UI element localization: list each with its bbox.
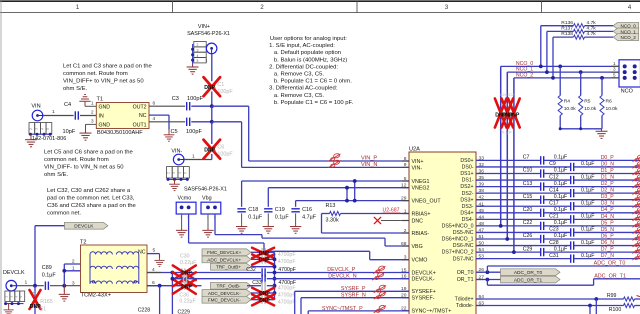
svg-text:C28: C28 bbox=[549, 240, 559, 246]
svg-text:OUT2: OUT2 bbox=[133, 104, 147, 110]
svg-text:ohm S/E.: ohm S/E. bbox=[63, 86, 88, 92]
capacitor C6 100pF DNP bbox=[208, 147, 216, 149]
svg-text:D3_P: D3_P bbox=[601, 194, 615, 200]
wire R136 drop bbox=[540, 26, 542, 67]
svg-text:SYSREF+: SYSREF+ bbox=[412, 289, 436, 295]
net flag ADC_DEVCLK+ bbox=[202, 256, 251, 263]
svg-text:C228: C228 bbox=[138, 307, 151, 313]
svg-text:4700pF: 4700pF bbox=[278, 292, 296, 298]
capacitor C23 0.1uF lane D5_N bbox=[476, 231, 571, 233]
svg-text:C15: C15 bbox=[523, 194, 533, 200]
svg-text:Let C1 and C3 share a pad on t: Let C1 and C3 share a pad on the bbox=[63, 64, 152, 70]
svg-text:C229: C229 bbox=[178, 309, 191, 314]
svg-text:1: 1 bbox=[72, 266, 75, 272]
wire ADC_OR_T0 route bbox=[486, 266, 488, 272]
svg-text:D1_P: D1_P bbox=[601, 168, 615, 174]
svg-text:b. Balun is (400MHz, 3GHz): b. Balun is (400MHz, 3GHz) bbox=[274, 57, 347, 63]
svg-text:C4: C4 bbox=[64, 102, 71, 108]
svg-text:R99: R99 bbox=[607, 293, 617, 299]
capacitor C19 0.1uF bbox=[264, 208, 272, 210]
svg-text:common net. Route from: common net. Route from bbox=[63, 71, 128, 77]
svg-text:b. Populate C1 = C6 = 0 ohm.: b. Populate C1 = C6 = 0 ohm. bbox=[274, 79, 352, 85]
svg-text:pad on the common net. Let C33: pad on the common net. Let C33, bbox=[47, 195, 135, 201]
capacitor C18 0.1uF bbox=[237, 208, 245, 210]
net flag DEVCLK bbox=[64, 222, 108, 229]
DNP mark NCO cap 3 bbox=[508, 99, 520, 128]
diff pair glyph DEVCLK_P bbox=[373, 265, 385, 273]
ground C19 bbox=[263, 224, 274, 233]
svg-text:4700pF: 4700pF bbox=[278, 299, 296, 305]
svg-text:0.1µF: 0.1µF bbox=[275, 214, 290, 220]
diff pair glyph SYNC bbox=[374, 305, 386, 313]
wire VNEG_OUT rail bbox=[296, 200, 409, 202]
svg-text:VIN+: VIN+ bbox=[198, 24, 210, 30]
capacitor C28 0.1uF lane D6_N bbox=[476, 245, 571, 247]
svg-text:DNP: DNP bbox=[259, 291, 270, 297]
wire ADC_OR_T1 route bbox=[486, 280, 488, 286]
svg-text:TRF_OutB-: TRF_OutB- bbox=[217, 284, 241, 289]
svg-text:51: 51 bbox=[40, 307, 46, 313]
svg-text:4700pF: 4700pF bbox=[278, 285, 296, 291]
ground C18 bbox=[236, 224, 247, 233]
capacitor C262 4700pF DNP bbox=[172, 278, 261, 280]
diff pair glyph SYSRF_P bbox=[374, 285, 386, 293]
wire NCO_2 row bbox=[514, 77, 619, 79]
resistor R138 4.7k bbox=[553, 36, 574, 38]
svg-text:RBIAS-: RBIAS- bbox=[412, 231, 430, 237]
svg-text:SYSREF-: SYSREF- bbox=[412, 296, 435, 302]
svg-text:4: 4 bbox=[178, 172, 182, 174]
wire NCO_1 vertical to DS6+ bbox=[506, 72, 508, 239]
svg-text:OR_T0: OR_T0 bbox=[457, 270, 474, 276]
svg-text:2: 2 bbox=[166, 172, 170, 174]
ground DEVCLK input bbox=[63, 286, 65, 292]
svg-text:DS1-: DS1- bbox=[462, 178, 474, 184]
wire VIN+ shield rail bbox=[192, 44, 194, 65]
wire VNEG tie 1 bbox=[354, 181, 356, 201]
svg-text:a. Remove C3, C5.: a. Remove C3, C5. bbox=[274, 93, 324, 99]
wire NCO_0 vertical to DS5+ bbox=[500, 66, 502, 226]
svg-text:C30: C30 bbox=[180, 253, 190, 259]
svg-text:10.0k: 10.0k bbox=[584, 106, 597, 112]
wire DEVCLK sma to C89 bbox=[17, 285, 44, 287]
resistor R136 4.7k bbox=[541, 25, 574, 27]
svg-text:common net. Route from: common net. Route from bbox=[44, 157, 109, 163]
svg-text:GND: GND bbox=[99, 104, 111, 110]
resistor R4 10.0k bbox=[558, 65, 562, 69]
svg-text:4.7k: 4.7k bbox=[587, 31, 597, 37]
svg-text:C18: C18 bbox=[248, 207, 258, 213]
svg-text:0.1µF: 0.1µF bbox=[581, 187, 594, 193]
T2 winding links bbox=[89, 255, 91, 284]
capacitor C12 0.1uF lane D1_N bbox=[476, 179, 571, 181]
diff pair glyph D7_N bbox=[632, 253, 640, 260]
DNP mark NCO cap 2 bbox=[502, 99, 514, 128]
svg-text:DS0-: DS0- bbox=[462, 165, 474, 171]
svg-text:4700pF: 4700pF bbox=[278, 259, 296, 265]
svg-text:Vcmo: Vcmo bbox=[178, 195, 192, 201]
capacitor C29 0.1uF lane D7_P bbox=[476, 251, 541, 253]
capacitor C4 10pF bbox=[74, 111, 76, 119]
svg-text:142-0701-806: 142-0701-806 bbox=[32, 136, 66, 142]
capacitor C10 0.1uF lane D1_P bbox=[476, 173, 541, 175]
svg-text:0.1µF: 0.1µF bbox=[502, 131, 512, 135]
svg-text:1: 1 bbox=[91, 101, 94, 106]
wire DEVCLK flag to column bbox=[35, 225, 64, 227]
wire Tdiode+ drop bbox=[595, 299, 597, 314]
svg-text:R136: R136 bbox=[561, 20, 573, 26]
border frame bbox=[0, 0, 640, 2]
svg-text:ohm S/E.: ohm S/E. bbox=[44, 172, 69, 178]
svg-text:NC: NC bbox=[139, 113, 147, 119]
DNP mark C262 bbox=[173, 272, 196, 286]
svg-text:0.1µF: 0.1µF bbox=[42, 273, 57, 279]
svg-text:VIN: VIN bbox=[31, 103, 40, 109]
svg-text:DS4-: DS4- bbox=[462, 217, 474, 223]
svg-text:0.1µF: 0.1µF bbox=[581, 161, 594, 167]
svg-text:R100: R100 bbox=[609, 307, 622, 313]
svg-text:DS0+: DS0+ bbox=[460, 158, 473, 164]
svg-text:TCM2-43X+: TCM2-43X+ bbox=[81, 293, 111, 299]
wire VIN- to node bbox=[184, 159, 212, 161]
svg-text:3.30k: 3.30k bbox=[326, 217, 339, 223]
svg-text:C22: C22 bbox=[523, 220, 533, 226]
svg-text:GND: GND bbox=[99, 123, 111, 129]
svg-text:5: 5 bbox=[184, 172, 188, 174]
svg-text:b. Populate C1 = C6 = 100 pF.: b. Populate C1 = C6 = 100 pF. bbox=[274, 100, 354, 106]
svg-text:C23: C23 bbox=[549, 227, 559, 233]
svg-text:3: 3 bbox=[172, 172, 176, 174]
svg-text:3: 3 bbox=[35, 128, 39, 130]
capacitor C7 0.1uF lane D0_P bbox=[476, 159, 541, 161]
diff pair glyph D5_P bbox=[632, 220, 640, 227]
svg-text:ADC_DEVCLK+: ADC_DEVCLK+ bbox=[207, 257, 241, 262]
wire OR_T0 to flag bbox=[476, 271, 501, 273]
wire C228 drop bbox=[159, 286, 161, 314]
ground T2 NC bbox=[154, 258, 164, 266]
svg-text:VIN-: VIN- bbox=[412, 165, 423, 171]
net flag ADC_OR_T0 bbox=[501, 269, 561, 276]
net flag NCO_1 bbox=[613, 28, 639, 35]
wire C89 to T2 pin3 bbox=[50, 285, 81, 287]
svg-text:DS3-: DS3- bbox=[462, 204, 474, 210]
svg-text:SASF546-P26-X1: SASF546-P26-X1 bbox=[184, 186, 227, 192]
DNP marks upper caps bbox=[252, 248, 274, 258]
net flag TRF_OutB- bbox=[211, 282, 252, 289]
diff pair glyph D6_N bbox=[632, 240, 640, 247]
svg-text:Let C5 and C6 share a pad on t: Let C5 and C6 share a pad on the bbox=[44, 149, 133, 155]
svg-text:D5_N: D5_N bbox=[601, 227, 615, 233]
DNP mark C30 bbox=[173, 265, 196, 280]
svg-text:D1_N: D1_N bbox=[601, 174, 615, 180]
wire R138 drop bbox=[552, 37, 554, 78]
svg-text:C33: C33 bbox=[252, 280, 262, 286]
svg-text:DS1+: DS1+ bbox=[460, 171, 473, 177]
net flag NCO_2 bbox=[613, 34, 639, 41]
wire C229 drop bbox=[171, 273, 173, 314]
wire VIN shield rail bbox=[30, 133, 51, 135]
diff pair glyph D6_P bbox=[632, 233, 640, 240]
svg-text:NCO_2: NCO_2 bbox=[621, 35, 637, 40]
svg-text:DS5+/NCO_0: DS5+/NCO_0 bbox=[442, 224, 474, 230]
wire DEVCLK shield rail bbox=[5, 303, 23, 305]
svg-text:C21: C21 bbox=[549, 214, 559, 220]
svg-text:4.7k: 4.7k bbox=[587, 20, 597, 26]
svg-text:a. Default populate option: a. Default populate option bbox=[274, 50, 341, 56]
capacitor C26 0.1uF lane D6_P bbox=[476, 238, 541, 240]
DNP cap ADC_DEVCLK+ 4700pF bbox=[251, 258, 261, 260]
net flag NCO_0 bbox=[613, 22, 639, 29]
svg-text:0.1µF: 0.1µF bbox=[248, 214, 263, 220]
svg-text:0.1µF: 0.1µF bbox=[581, 174, 594, 180]
svg-text:0.1µF: 0.1µF bbox=[554, 220, 567, 226]
wire Vcmo net to U2A VCMO bbox=[188, 214, 190, 243]
wire T2 pins 1/2 tie bbox=[63, 264, 65, 286]
svg-text:SYSRF_N: SYSRF_N bbox=[341, 293, 366, 299]
svg-text:U2A: U2A bbox=[409, 146, 420, 152]
svg-text:1: 1 bbox=[613, 61, 616, 66]
wire R13 to RBIAS+ bbox=[341, 213, 410, 215]
svg-text:Let C32, C30 and C262 share a: Let C32, C30 and C262 share a bbox=[47, 188, 131, 194]
svg-text:R5: R5 bbox=[584, 98, 591, 104]
diff pair glyph D1_N bbox=[632, 174, 640, 181]
svg-text:Vbg: Vbg bbox=[202, 195, 212, 201]
svg-text:ADC_OR_T1: ADC_OR_T1 bbox=[514, 277, 543, 283]
svg-text:3: 3 bbox=[613, 67, 616, 72]
svg-text:5: 5 bbox=[46, 128, 50, 130]
svg-text:DS5-/NC: DS5-/NC bbox=[453, 230, 474, 236]
wire NCO_2 vertical to DS7+ bbox=[513, 78, 515, 252]
svg-text:D0_P: D0_P bbox=[601, 155, 615, 161]
wire Vbg net to U2A VBG bbox=[214, 214, 216, 235]
svg-text:FMC_DEVCLK-: FMC_DEVCLK- bbox=[208, 298, 242, 303]
svg-text:D0_N: D0_N bbox=[601, 161, 615, 167]
diff pair glyph D1_P bbox=[632, 168, 640, 175]
capacitor C17 0.1uF lane D3_N bbox=[476, 205, 571, 207]
capacitor C16 4.7uF bbox=[291, 208, 299, 210]
capacitor C22 0.1uF lane D5_P bbox=[476, 225, 541, 227]
svg-text:C5: C5 bbox=[171, 129, 178, 135]
svg-text:DS7+/NCO_2: DS7+/NCO_2 bbox=[442, 250, 474, 256]
svg-text:D6_N: D6_N bbox=[601, 240, 615, 246]
diff pair glyph DEVCLK_N bbox=[372, 272, 384, 280]
junction DEVCLK column bbox=[33, 284, 37, 288]
svg-text:C29: C29 bbox=[523, 246, 533, 252]
svg-text:VNEG1: VNEG1 bbox=[412, 179, 430, 185]
svg-text:VIN_N: VIN_N bbox=[361, 162, 377, 168]
ground DEVCLK shield bbox=[8, 304, 10, 308]
diff pair glyph D5_N bbox=[632, 227, 640, 234]
transformer T1 B0430J50100AHF bbox=[96, 103, 149, 129]
svg-text:10pF: 10pF bbox=[63, 129, 76, 135]
svg-text:0.1µF: 0.1µF bbox=[554, 207, 567, 213]
svg-text:VCMO: VCMO bbox=[412, 258, 428, 264]
svg-text:D4_P: D4_P bbox=[601, 207, 615, 213]
svg-text:TRF_OutB+: TRF_OutB+ bbox=[216, 265, 241, 270]
wire VIN+ node down bbox=[211, 106, 213, 122]
svg-text:C16: C16 bbox=[302, 207, 312, 213]
wire VNEG2 rail bbox=[268, 187, 409, 189]
svg-text:D2_P: D2_P bbox=[601, 181, 615, 187]
svg-text:R4: R4 bbox=[564, 98, 571, 104]
wire VIN+ down to C1 bbox=[211, 54, 213, 82]
svg-text:2: 2 bbox=[72, 259, 75, 265]
DNP mark NCO cap 1 bbox=[495, 99, 507, 128]
svg-text:DNP: DNP bbox=[508, 113, 519, 119]
DEVCLK shield boxes bbox=[5, 291, 10, 302]
svg-text:0.1µF: 0.1µF bbox=[581, 253, 594, 259]
wire TRF_OutB- to node bbox=[247, 285, 261, 287]
svg-text:4.7k: 4.7k bbox=[587, 26, 597, 32]
DNP mark C1 bbox=[204, 77, 221, 96]
svg-text:0.1µF: 0.1µF bbox=[581, 214, 594, 220]
svg-text:OR_T1: OR_T1 bbox=[457, 277, 474, 283]
svg-text:C3: C3 bbox=[172, 96, 179, 102]
diff pair glyph D0_P bbox=[632, 154, 640, 161]
svg-text:C1: C1 bbox=[217, 82, 224, 88]
pin 5 T1 NC grounded bbox=[149, 114, 169, 116]
wire down to C6 bbox=[211, 122, 213, 144]
net flag ADC_OR_T1 bbox=[501, 276, 561, 283]
svg-text:1. S/E input, AC-coupled:: 1. S/E input, AC-coupled: bbox=[269, 43, 335, 49]
svg-text:0.1µF: 0.1µF bbox=[581, 200, 594, 206]
junction T2 primary bbox=[62, 284, 66, 288]
resistor R6 10.0k bbox=[600, 76, 604, 80]
wire T1 OUT1 to C5 bbox=[149, 121, 185, 123]
svg-text:DS6+/NCO_1: DS6+/NCO_1 bbox=[442, 237, 474, 243]
junction C3/VIN+ node bbox=[210, 104, 214, 108]
capacitor C13 0.1uF lane D2_P bbox=[476, 186, 541, 188]
svg-text:a. Remove C3, C5.: a. Remove C3, C5. bbox=[274, 72, 324, 78]
svg-text:DNP: DNP bbox=[259, 258, 270, 264]
svg-text:DS4+: DS4+ bbox=[460, 210, 473, 216]
svg-text:R165: R165 bbox=[40, 299, 53, 305]
wire VNEG tie 2 bbox=[346, 188, 348, 201]
svg-text:IN: IN bbox=[99, 114, 104, 120]
svg-text:0.1µF: 0.1µF bbox=[554, 194, 567, 200]
diff pair glyph D3_P bbox=[632, 194, 640, 201]
svg-text:DNP: DNP bbox=[259, 298, 270, 304]
svg-text:C89: C89 bbox=[42, 265, 52, 271]
ground NCO pulldowns bbox=[596, 129, 608, 139]
svg-text:1: 1 bbox=[52, 109, 55, 115]
ground Vbg pin1 bbox=[207, 214, 209, 228]
svg-text:ADC_OR_T1: ADC_OR_T1 bbox=[594, 274, 626, 280]
svg-text:5: 5 bbox=[613, 72, 616, 77]
red mark right edge R99 bbox=[637, 296, 640, 297]
svg-text:3. Differential AC-coupled:: 3. Differential AC-coupled: bbox=[269, 86, 338, 92]
wire SYSREF+ net bbox=[294, 291, 296, 314]
wire Tdiode- drop bbox=[589, 306, 591, 314]
wire SYSREF- net bbox=[300, 298, 302, 314]
svg-text:C6: C6 bbox=[217, 145, 224, 151]
svg-text:2: 2 bbox=[4, 295, 8, 297]
svg-text:NC: NC bbox=[138, 249, 146, 255]
svg-text:C26: C26 bbox=[523, 233, 533, 239]
wire VIN- shield rail bbox=[167, 178, 188, 180]
capacitor C1 100pF DNP bbox=[208, 84, 216, 86]
svg-text:VIN_DIFF- to VIN_N net as 50: VIN_DIFF- to VIN_N net as 50 bbox=[44, 164, 124, 170]
svg-text:User options for analog input:: User options for analog input: bbox=[270, 36, 347, 42]
wire T2 pin6 to C36 bbox=[147, 285, 182, 287]
svg-text:DNP: DNP bbox=[204, 148, 215, 154]
svg-text:4: 4 bbox=[153, 116, 156, 122]
svg-text:DS3+: DS3+ bbox=[460, 197, 473, 203]
svg-text:0.22µF: 0.22µF bbox=[179, 299, 195, 305]
svg-text:D5_P: D5_P bbox=[601, 220, 615, 226]
svg-text:0.1µF: 0.1µF bbox=[554, 168, 567, 174]
svg-text:R137: R137 bbox=[561, 26, 573, 32]
svg-text:4700pF: 4700pF bbox=[278, 252, 296, 258]
svg-text:C10: C10 bbox=[523, 168, 533, 174]
svg-text:0.1µF: 0.1µF bbox=[581, 240, 594, 246]
svg-text:Tdiode-: Tdiode- bbox=[456, 303, 474, 309]
svg-text:C9: C9 bbox=[549, 161, 556, 167]
diff pair glyph D2_N bbox=[632, 187, 640, 194]
diff pair glyph D7_P bbox=[632, 246, 640, 253]
svg-text:VIN_P: VIN_P bbox=[361, 155, 377, 161]
svg-text:0.1µF: 0.1µF bbox=[554, 155, 567, 161]
T2 winding 1 bbox=[90, 252, 139, 255]
svg-text:DS2-: DS2- bbox=[462, 191, 474, 197]
svg-text:C17: C17 bbox=[549, 200, 559, 206]
svg-text:2: 2 bbox=[91, 110, 94, 115]
DNP cap FMC_DEVCLK- 4700pF bbox=[251, 299, 261, 301]
ground Vcmo pin1 bbox=[181, 214, 183, 228]
svg-text:DNC: DNC bbox=[412, 218, 424, 224]
svg-text:C36 and C263 share a pad on th: C36 and C263 share a pad on the bbox=[47, 203, 136, 209]
svg-text:T1: T1 bbox=[97, 97, 104, 103]
connector NCO header bbox=[619, 60, 640, 87]
svg-text:C2C2C2: C2C2C2 bbox=[500, 93, 515, 97]
svg-text:DEVCLK: DEVCLK bbox=[74, 224, 94, 230]
wire NCO_0 row bbox=[501, 65, 619, 67]
diff pair glyph VIN_N bbox=[328, 160, 340, 168]
DNP cap ADC_DEVCLK- 4700pF bbox=[251, 292, 261, 294]
diff pair glyph SYSRF_N bbox=[374, 291, 386, 299]
ground C16 bbox=[290, 224, 301, 233]
svg-text:DEVCLK: DEVCLK bbox=[3, 270, 25, 276]
svg-text:D7_P: D7_P bbox=[601, 247, 615, 253]
wire C4 to T1 IN bbox=[80, 115, 96, 117]
svg-text:3: 3 bbox=[72, 280, 75, 286]
T2 winding 3 bbox=[90, 281, 139, 284]
DNP marks lower caps bbox=[252, 288, 274, 299]
svg-text:SYNC~+/TMST+: SYNC~+/TMST+ bbox=[412, 309, 452, 314]
svg-text:DS6-/NC: DS6-/NC bbox=[453, 243, 474, 249]
svg-text:common net.: common net. bbox=[47, 210, 81, 216]
svg-text:10.0k: 10.0k bbox=[606, 106, 619, 112]
wire R4-R6 ground rail bbox=[560, 128, 602, 130]
diff pair glyph D4_N bbox=[632, 213, 640, 220]
svg-text:DNP: DNP bbox=[181, 284, 192, 290]
svg-text:C31: C31 bbox=[549, 253, 559, 259]
svg-text:DEVCLK_N: DEVCLK_N bbox=[328, 274, 357, 280]
svg-text:SASF546-P26-X1: SASF546-P26-X1 bbox=[187, 31, 230, 37]
junction C5/VIN- node bbox=[210, 120, 214, 124]
svg-text:R6: R6 bbox=[606, 98, 613, 104]
svg-text:D2_N: D2_N bbox=[601, 188, 615, 194]
resistor R165 DNP bbox=[34, 286, 36, 314]
svg-text:ADC_OR_T0: ADC_OR_T0 bbox=[594, 261, 626, 267]
no-connect DNC pin U2A bbox=[381, 220, 409, 222]
wire VIN_P from C3 node to U2A VIN+ bbox=[212, 105, 249, 107]
wire T1 OUT2 to C3 bbox=[149, 105, 185, 107]
svg-text:4: 4 bbox=[40, 128, 44, 130]
svg-text:DNP: DNP bbox=[204, 85, 215, 91]
svg-text:VNEG_OUT: VNEG_OUT bbox=[412, 199, 442, 205]
svg-text:Tdiode+: Tdiode+ bbox=[455, 297, 474, 303]
